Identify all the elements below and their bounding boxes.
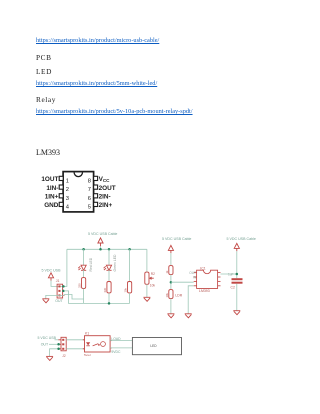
wire bus right drop to pot: [146, 249, 148, 272]
junction on J1 pin2: [62, 290, 65, 293]
ground symbol under cap: [233, 311, 240, 315]
wire IC out to cap node: [221, 273, 237, 275]
relay K1 box: [85, 336, 111, 352]
svg-text:5vrel: 5vrel: [84, 353, 91, 357]
svg-text:OUT: OUT: [189, 271, 196, 275]
wire cap to ground: [236, 284, 238, 311]
pin numbers right 8 7 6 5: [88, 179, 91, 211]
text LM393 heading: [36, 148, 60, 157]
junction on J1 pin1: [62, 285, 65, 288]
supply symbol +5V arrow (left): [48, 273, 53, 281]
svg-text:5 VDC USB: 5 VDC USB: [38, 336, 57, 340]
svg-text:3: 3: [66, 196, 69, 202]
junction bottom bus / branch B: [108, 302, 111, 305]
text LED: [36, 67, 52, 76]
pin numbers left 1-4: [66, 179, 70, 211]
svg-text:5 VDC USB Cable: 5 VDC USB Cable: [88, 232, 117, 236]
ground symbol under IC: [185, 314, 192, 318]
pin 3 stub: [59, 194, 63, 198]
svg-text:1IN-: 1IN-: [46, 185, 58, 192]
svg-text:2IN+: 2IN+: [99, 202, 113, 209]
wire supply to R1: [170, 253, 172, 265]
wire pot to ground: [146, 284, 148, 297]
svg-text:4: 4: [66, 205, 70, 211]
wire relay NO to load box: [110, 340, 132, 342]
junction J2 pin2: [57, 343, 60, 346]
wire top bus left drop to J1 pin1: [64, 249, 67, 286]
relay K1 internal switch: [93, 344, 100, 346]
wire OUT label to J2 pin2: [49, 343, 58, 345]
wire R3 to bottom bus: [83, 289, 85, 304]
svg-text:OUT: OUT: [55, 299, 63, 303]
pin 5 stub: [94, 202, 98, 206]
svg-text:1: 1: [66, 179, 69, 185]
junction bus/branch A: [82, 248, 85, 251]
hyperlink line 1: [36, 37, 159, 44]
wire bottom bus: [84, 302, 130, 304]
resistor LDR: [169, 290, 173, 299]
wire branch A upper: [83, 249, 85, 265]
svg-text:10k: 10k: [165, 292, 169, 297]
svg-text:1OUT: 1OUT: [41, 176, 58, 183]
capacitor C2: [232, 279, 243, 283]
svg-text:LDR: LDR: [175, 293, 182, 297]
supply symbol +5V arrow (right): [234, 243, 239, 251]
relay pin stubs: [83, 340, 112, 349]
wire J2 pin3 to ground: [50, 349, 59, 356]
ground symbol under pot: [143, 297, 150, 301]
pin 8 stub: [94, 176, 98, 180]
svg-text:5 VDC USB: 5 VDC USB: [42, 269, 62, 273]
wire J1 pin2 to bottom bus: [64, 291, 84, 304]
relay K1 coil: [101, 342, 106, 347]
svg-text:6: 6: [88, 196, 91, 202]
supply symbol +5V arrow (middle): [168, 245, 173, 253]
ground symbol under LDR: [167, 314, 174, 318]
svg-text:330: 330: [103, 287, 107, 292]
svg-text:J1: J1: [56, 279, 60, 283]
svg-text:5 VDC USB Cable: 5 VDC USB Cable: [227, 237, 256, 241]
pin 2 stub: [59, 185, 63, 189]
resistor R1: [169, 266, 173, 275]
potentiometer R2: [145, 272, 154, 284]
pin label 1OUT: [41, 176, 58, 209]
svg-text:J2: J2: [62, 354, 66, 358]
junction bus/branch B: [108, 248, 111, 251]
wire divider to IC pin: [171, 281, 194, 283]
wire relay common to load box: [110, 347, 132, 349]
wire J2 pin1 to relay coil: [66, 339, 84, 341]
junction bus/branch C: [128, 248, 131, 251]
connector J1 body: [57, 284, 64, 298]
svg-text:1IN+: 1IN+: [45, 194, 59, 201]
resistor R5: [128, 282, 132, 294]
wire J2 pin3 to relay coil low: [66, 348, 84, 350]
relay K1 internal diode: [86, 342, 90, 346]
svg-text:C2: C2: [231, 286, 235, 290]
hyperlink line 2: [36, 80, 157, 87]
wire IC gnd pin down: [188, 286, 194, 314]
resistor R4: [107, 282, 111, 294]
svg-text:IC1: IC1: [200, 266, 206, 270]
svg-text:LED: LED: [150, 344, 157, 348]
wire supply stem to bus: [100, 246, 102, 249]
connector J2 body: [58, 337, 66, 351]
wire branch C upper: [129, 249, 131, 281]
ground symbol under J1: [42, 299, 49, 303]
svg-text:5 VDC USB Cable: 5 VDC USB Cable: [162, 237, 191, 241]
svg-text:1k: 1k: [165, 270, 169, 274]
svg-text:5: 5: [88, 205, 91, 211]
junction J2 pin3: [57, 348, 60, 351]
wire R5 to bottom bus: [129, 293, 131, 303]
svg-text:VCC: VCC: [99, 176, 111, 183]
svg-text:8: 8: [88, 179, 91, 185]
svg-text:1uF: 1uF: [228, 273, 234, 277]
text Relay: [36, 95, 56, 104]
svg-text:K1: K1: [85, 332, 89, 336]
junction cap node: [236, 273, 239, 276]
wire J1 pin3 to ground: [46, 295, 64, 298]
svg-text:9VDC: 9VDC: [111, 350, 121, 354]
wire J1 pin3 step to branch A: [64, 295, 84, 300]
svg-text:2: 2: [66, 187, 69, 193]
junction bus/supply stem: [99, 248, 102, 251]
LED LED1 (red): [78, 265, 86, 270]
wire supply down to cap: [236, 251, 238, 278]
resistor R3: [82, 278, 86, 289]
wire supply to J1 pin1: [51, 281, 63, 287]
pin 4 stub: [59, 202, 63, 206]
svg-text:LM393: LM393: [199, 289, 210, 293]
svg-text:OUT: OUT: [41, 342, 49, 346]
svg-text:7: 7: [88, 187, 91, 193]
ground symbol under J2: [46, 356, 53, 360]
wire branch B upper: [108, 249, 110, 265]
supply symbol +5V arrow (top bus): [98, 238, 103, 246]
svg-text:2OUT: 2OUT: [99, 185, 116, 192]
wire LED2 to R4: [108, 270, 110, 282]
svg-text:GND: GND: [44, 202, 59, 209]
svg-text:10k: 10k: [124, 287, 128, 292]
svg-text:2IN-: 2IN-: [99, 194, 111, 201]
wire R1 to LDR: [170, 275, 172, 290]
junction divider: [170, 281, 173, 284]
hyperlink line 3: [36, 108, 193, 115]
wire top bus: [67, 248, 147, 250]
svg-text:Green LED: Green LED: [113, 254, 117, 272]
pin 7 stub: [94, 185, 98, 189]
LED LED2 (green): [104, 265, 112, 270]
op-amp U1 LM393 DIP body: [63, 172, 94, 212]
svg-text:10k: 10k: [150, 284, 156, 288]
text PCB: [36, 53, 52, 62]
wire supply label to J2 pin1: [55, 339, 59, 341]
svg-text:330: 330: [78, 283, 82, 288]
svg-text:R2: R2: [151, 272, 155, 276]
pin 1 stub: [59, 176, 63, 180]
wire LED1 to R3: [83, 270, 85, 278]
svg-text:Red LED: Red LED: [89, 257, 93, 271]
wire R4 to bottom bus: [108, 293, 110, 303]
op-amp IC1 LM393 DIP outline: [194, 270, 221, 288]
load box LED: [132, 338, 181, 355]
pin 6 stub: [94, 194, 98, 198]
wire LDR to ground: [170, 299, 172, 314]
